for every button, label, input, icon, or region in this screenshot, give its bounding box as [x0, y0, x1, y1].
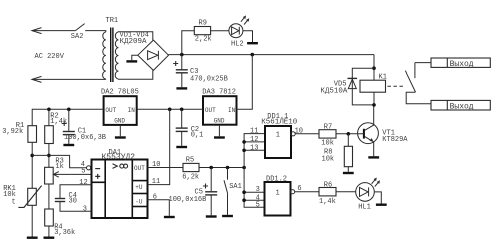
inversion circle DD1.2 output — [291, 190, 295, 194]
wire: DD1.2 output to R6 — [295, 191, 319, 193]
bridge diode cathode bar — [157, 51, 159, 60]
svg-text:1: 1 — [276, 132, 280, 140]
ground (HL1) — [376, 203, 387, 205]
node: junction at DD vertical — [242, 166, 246, 170]
transformer TR1 core — [110, 28, 112, 83]
switch SA1 top lead — [227, 168, 229, 180]
wire: bottom line to TR1 primary — [105, 78, 107, 80]
node: 12V rail junction to op-amp +U — [168, 108, 172, 112]
svg-text:OUT: OUT — [205, 107, 216, 114]
node: junction R2/R3/mid wire — [47, 154, 51, 158]
svg-text:OUT: OUT — [105, 107, 116, 114]
wire: fixed contact to upper output — [415, 62, 431, 64]
svg-text:Выход: Выход — [450, 60, 474, 69]
LED HL2 circle — [229, 24, 243, 38]
label amplifier symbol infinity — [120, 164, 124, 168]
wire: 5V rail DA2 OUT to R1 top — [32, 109, 103, 125]
transformer TR1 primary coil — [103, 32, 106, 79]
svg-text:K1: K1 — [379, 74, 387, 82]
svg-text:+U: +U — [135, 184, 143, 191]
node: 5V rail junction at C1 — [67, 108, 71, 112]
node: rail junction at C3/R9 — [180, 53, 184, 57]
svg-text:Выход: Выход — [450, 102, 474, 111]
wire: pin 12 to C4 top — [60, 185, 92, 198]
wire: K1 coil bottom to VT1 collector — [373, 92, 375, 105]
svg-text:SA1: SA1 — [229, 183, 242, 191]
node: junction at SA1 — [226, 166, 230, 170]
svg-text:10: 10 — [295, 128, 303, 136]
resistor R2 — [45, 126, 54, 144]
wire: R2 bottom to R3 top — [48, 144, 50, 168]
thermistor RK1 box — [28, 188, 37, 205]
label minus input — [95, 168, 100, 170]
svg-text:1,4k: 1,4k — [50, 118, 67, 126]
ground (C3) — [176, 87, 187, 89]
ground (R4) — [44, 236, 55, 238]
resistor R6 — [319, 188, 336, 196]
capacitor C5 bottom lead — [210, 195, 212, 215]
svg-text:12: 12 — [79, 179, 87, 187]
connector lower Выход box — [431, 100, 490, 110]
transistor VT1 circle — [358, 123, 379, 144]
svg-text:13: 13 — [250, 144, 258, 152]
node: tap pin 12 — [242, 140, 246, 144]
wire: VD5 loop — [352, 68, 374, 105]
wire: DD1.1 pin 13 tap — [244, 149, 265, 151]
connector upper Выход box — [431, 58, 490, 67]
ground (DA3) — [214, 136, 225, 138]
node: tap pin 3 — [242, 190, 246, 194]
LED HL2 arrows — [241, 16, 246, 21]
svg-text:6: 6 — [153, 193, 157, 201]
arrow: AC input top arrowhead — [32, 28, 42, 34]
wire: R8 top lead — [347, 134, 349, 147]
svg-text:1k: 1k — [55, 163, 63, 171]
wire: RK1 bottom to ground — [31, 205, 33, 236]
wire: secondary bottom to bridge — [118, 70, 152, 79]
resistor R7 — [319, 130, 336, 138]
LED HL2 cathode bar — [238, 27, 240, 35]
svg-text:10k: 10k — [321, 140, 334, 148]
wire: R4 bottom to ground — [48, 226, 50, 237]
ground (bridge) — [126, 60, 137, 62]
capacitor C1 bottom lead — [68, 135, 70, 144]
svg-text:100,0x6,3В: 100,0x6,3В — [64, 134, 106, 142]
svg-text:3: 3 — [83, 205, 87, 213]
potentiometer R3 — [45, 167, 54, 184]
logic gate DD1.1 box — [265, 126, 291, 158]
wire: R1 bottom to RK1 top — [31, 142, 33, 188]
switch SA1 bottom lead — [227, 194, 229, 215]
relay contact blade tip tick — [405, 71, 407, 75]
svg-text:470,0x25В: 470,0x25В — [190, 76, 228, 84]
capacitor C2 top lead — [181, 109, 183, 127]
svg-text:К553УД2: К553УД2 — [102, 153, 136, 162]
op-amp DA1 divider right column — [131, 160, 133, 219]
op-amp DA1 left column divider — [92, 181, 106, 183]
switch SA2 blade — [75, 24, 84, 31]
svg-text:DA2 78L05: DA2 78L05 — [101, 88, 139, 96]
node: tap pin 13 — [242, 149, 246, 153]
svg-text:12: 12 — [250, 136, 258, 144]
wire: HL1 to ground — [374, 192, 381, 204]
node: tap pin 4 — [242, 198, 246, 202]
svg-text:КТ829А: КТ829А — [382, 136, 408, 144]
relay K1 coil box — [360, 80, 386, 92]
resistor R1 — [28, 126, 37, 143]
capacitor C5 top lead — [210, 168, 212, 192]
wire: op-amp OUT pin 10 to R5 — [148, 167, 184, 169]
wire: R6 to HL1 — [336, 191, 356, 193]
wire: DA3 IN from raw DC rail — [237, 55, 253, 110]
capacitor C2 bottom lead — [181, 132, 183, 146]
wire: R3 bottom to R4 top — [48, 184, 50, 209]
resistor R9 — [194, 27, 210, 35]
LED HL1 circle — [356, 183, 375, 202]
diode VD5 triangle — [348, 79, 356, 88]
capacitor C1 plates — [63, 131, 75, 133]
connector lower divider — [446, 100, 448, 110]
svg-text:1,4k: 1,4k — [319, 198, 336, 206]
wire: HL2 to ground — [243, 31, 253, 42]
ground (SA1) — [222, 215, 233, 217]
label plus input — [95, 174, 100, 179]
node: rail junction at DA3 feed — [251, 53, 255, 57]
svg-text:-U: -U — [135, 198, 143, 205]
svg-text:11: 11 — [152, 178, 160, 186]
svg-text:30: 30 — [69, 197, 77, 205]
wire: relay feed vertical from rail — [373, 55, 375, 81]
wire: main +DC rail from bridge to relay corner — [169, 54, 375, 56]
switch SA1 blade — [224, 180, 228, 194]
thermistor RK1 diagonal — [18, 186, 41, 208]
svg-text:5: 5 — [256, 202, 260, 210]
ground (DA2) — [115, 136, 126, 138]
voltage regulator DA3 7812 box — [203, 96, 237, 125]
relay contact fixed lead — [414, 63, 416, 79]
dashed mechanical link K1 — [388, 85, 405, 87]
capacitor C2 plates — [176, 127, 188, 129]
svg-text:DA3 7812: DA3 7812 — [202, 88, 236, 96]
wire: DA2 GND lead — [119, 125, 121, 136]
node: junction VD5 loop bottom — [372, 103, 376, 107]
bridge rectifier VD1-VD4 diamond — [138, 40, 169, 70]
svg-text:t: t — [12, 199, 16, 207]
ground (VT1 emitter) — [368, 156, 379, 158]
node: junction R7/R8/base — [347, 132, 351, 136]
svg-text:SA2: SA2 — [71, 33, 84, 41]
transformer TR1 secondary coil — [115, 32, 118, 79]
wire: AC top line — [32, 30, 75, 32]
svg-text:R7: R7 — [324, 124, 332, 132]
wire: DD inputs vertical bus — [244, 134, 265, 208]
ground (R8) — [343, 172, 354, 174]
inversion circle op-amp pin 4 — [87, 166, 91, 170]
op-amp DA1 right column dividers — [132, 180, 147, 182]
svg-text:1: 1 — [276, 189, 280, 197]
svg-text:КД510А: КД510А — [320, 87, 348, 95]
node: junction at C5 — [209, 166, 213, 170]
ground (C1) — [63, 144, 74, 146]
wire: R2 top lead — [48, 109, 50, 125]
wire: DA3 GND lead — [218, 125, 220, 137]
node: 12V rail junction at C2 — [180, 108, 184, 112]
wire: DD1.2 pin 3 tap — [244, 191, 264, 193]
capacitor C5 plus sign — [203, 184, 208, 189]
diode VD5 cathode bar — [348, 77, 358, 79]
ground (op-amp -U) — [164, 216, 175, 218]
svg-text:3,92k: 3,92k — [2, 128, 23, 136]
relay contact blade — [407, 74, 416, 92]
wire: R7 to VT1 base — [336, 133, 363, 135]
svg-text:TR1: TR1 — [106, 17, 119, 25]
node: junction R1/RK1/mid wire — [30, 154, 34, 158]
logic gate DD1.2 box — [265, 182, 291, 216]
wire: DD1.1 pin 12 tap — [244, 141, 265, 143]
wire: C4 bottom to pin 3 — [60, 202, 92, 211]
wire: 12V rail DA3 OUT to DA2 IN — [137, 108, 203, 110]
svg-text:5: 5 — [81, 168, 85, 176]
resistor R5 — [183, 163, 199, 171]
capacitor C1 top lead — [68, 109, 70, 131]
transistor VT1 emitter — [365, 136, 374, 156]
wire: DD1.2 pin 4 tap — [244, 199, 264, 201]
wire: DD1.1 output to R7 — [295, 133, 319, 135]
svg-text:AC 220V: AC 220V — [35, 53, 65, 61]
wire: branch up to R9 — [182, 31, 195, 55]
svg-text:К561ЛЕ10: К561ЛЕ10 — [261, 118, 298, 126]
LED HL1 triangle — [360, 187, 369, 196]
wire: R3 wiper to op-amp pin 5 — [53, 172, 91, 178]
wire: bridge left corner to ground — [132, 55, 138, 60]
LED HL1 arrows — [372, 178, 377, 183]
wire: R5 to DD inputs vertical — [199, 167, 244, 169]
voltage regulator DA2 78L05 box — [104, 96, 137, 125]
wire: secondary top to bridge — [118, 32, 152, 40]
wire: AC bottom line — [32, 78, 106, 80]
capacitor C4 plates — [55, 198, 65, 200]
svg-text:0,1: 0,1 — [191, 132, 204, 140]
svg-text:R6: R6 — [324, 182, 332, 190]
capacitor C3 plus sign — [173, 61, 178, 66]
svg-text:R9: R9 — [199, 20, 207, 28]
capacitor C3 top lead — [181, 55, 183, 70]
ground (HL2) — [247, 42, 258, 44]
transistor VT1 base bar — [363, 129, 365, 139]
svg-text:КД209А: КД209А — [120, 38, 148, 46]
svg-text:10k: 10k — [322, 156, 335, 164]
LED HL1 cathode bar — [368, 187, 370, 196]
wire: op-amp +U from 12V rail — [148, 109, 170, 184]
arrow: AC input bottom arrowhead — [32, 76, 42, 82]
svg-text:OUT: OUT — [134, 165, 145, 172]
ground (C2) — [176, 146, 187, 148]
svg-text:R5: R5 — [186, 156, 194, 164]
resistor R4 — [45, 209, 54, 226]
svg-text:11: 11 — [250, 128, 258, 136]
wire: R8 bottom lead — [347, 167, 349, 172]
node: 5V rail junction at R2 — [47, 108, 51, 112]
wire: blade to lower output — [406, 92, 431, 104]
op-amp DA1 divider left column — [104, 160, 106, 219]
svg-text:GND: GND — [114, 118, 125, 125]
svg-text:DD1.2: DD1.2 — [266, 175, 287, 183]
svg-text:100,0x16В: 100,0x16В — [169, 196, 207, 204]
capacitor C1 plus sign — [62, 121, 67, 126]
wire: SA2 to TR1 primary — [85, 31, 106, 32]
inversion circle DD1.1 output — [291, 132, 295, 136]
capacitor C3 bottom lead — [181, 73, 183, 87]
capacitor C3 plates — [176, 69, 188, 71]
svg-text:GND: GND — [214, 118, 225, 125]
transistor VT1 collector — [365, 105, 374, 130]
capacitor C5 plates — [205, 191, 217, 193]
bridge diode triangle — [148, 51, 158, 60]
wire: op-amp -U to ground — [148, 200, 170, 216]
label amplifier symbol > — [113, 164, 118, 169]
ground (C5) — [206, 215, 217, 217]
transistor VT1 emitter arrow — [370, 138, 374, 142]
svg-text:2,2k: 2,2k — [195, 36, 212, 44]
svg-text:IN: IN — [128, 107, 136, 114]
ground (RK1) — [27, 236, 38, 238]
svg-text:3,36k: 3,36k — [54, 229, 75, 237]
svg-text:IN: IN — [228, 107, 236, 114]
svg-text:3: 3 — [256, 186, 260, 194]
node: junction VD5 loop top — [372, 66, 376, 70]
svg-text:10: 10 — [152, 161, 160, 169]
svg-text:6,2k: 6,2k — [182, 173, 199, 181]
wire: divider mid wire to op-amp pin 4 — [32, 155, 86, 167]
op-amp DA1 box — [92, 160, 148, 219]
svg-text:HL1: HL1 — [358, 204, 371, 212]
connector upper divider — [446, 58, 448, 67]
LED HL2 triangle — [232, 27, 239, 35]
resistor R8 — [344, 146, 352, 166]
wire: R9 to HL2 — [211, 30, 229, 32]
svg-text:HL2: HL2 — [231, 40, 244, 48]
